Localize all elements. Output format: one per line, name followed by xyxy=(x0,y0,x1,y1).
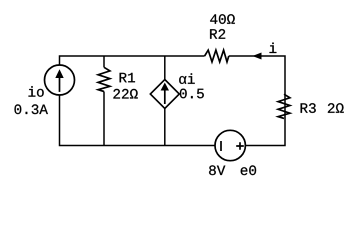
label i xyxy=(270,43,277,53)
current source arrow shaft xyxy=(59,78,61,92)
label R3 xyxy=(301,103,316,113)
resistor R2 xyxy=(205,50,229,62)
label R2 xyxy=(210,29,225,39)
wire dependent source branch bottom xyxy=(164,109,166,146)
label αi xyxy=(179,73,195,84)
wire top rail right with right column and bottom-right rail xyxy=(229,56,285,146)
wire left column bottom and bottom rail left xyxy=(60,95,216,146)
label 2Ω xyxy=(328,103,344,113)
dependent source arrow head xyxy=(161,83,169,91)
label 22Ω xyxy=(113,89,137,99)
label io xyxy=(29,86,44,97)
label R1 xyxy=(120,73,135,82)
dependent current source diamond xyxy=(150,80,179,109)
label e0 xyxy=(241,165,256,175)
resistor R1 xyxy=(98,67,110,91)
dependent source arrow shaft xyxy=(164,90,166,104)
voltage source V1 circle xyxy=(215,130,245,160)
wire dependent source branch top xyxy=(164,56,166,80)
wire R1 branch top xyxy=(103,56,105,67)
label 40Ω xyxy=(210,14,235,24)
voltage source plus sign xyxy=(236,142,244,150)
current source I1 circle xyxy=(45,65,75,95)
voltage source minus bar xyxy=(220,141,222,151)
current i arrow head on top wire xyxy=(252,53,261,60)
current source arrow head xyxy=(55,69,63,78)
label 8V xyxy=(209,165,225,175)
label 0.3A xyxy=(15,104,48,114)
resistor R3 xyxy=(278,94,290,118)
wire top rail left xyxy=(60,56,205,65)
wire R1 branch bottom xyxy=(103,92,105,146)
label 0.5 xyxy=(180,89,204,99)
